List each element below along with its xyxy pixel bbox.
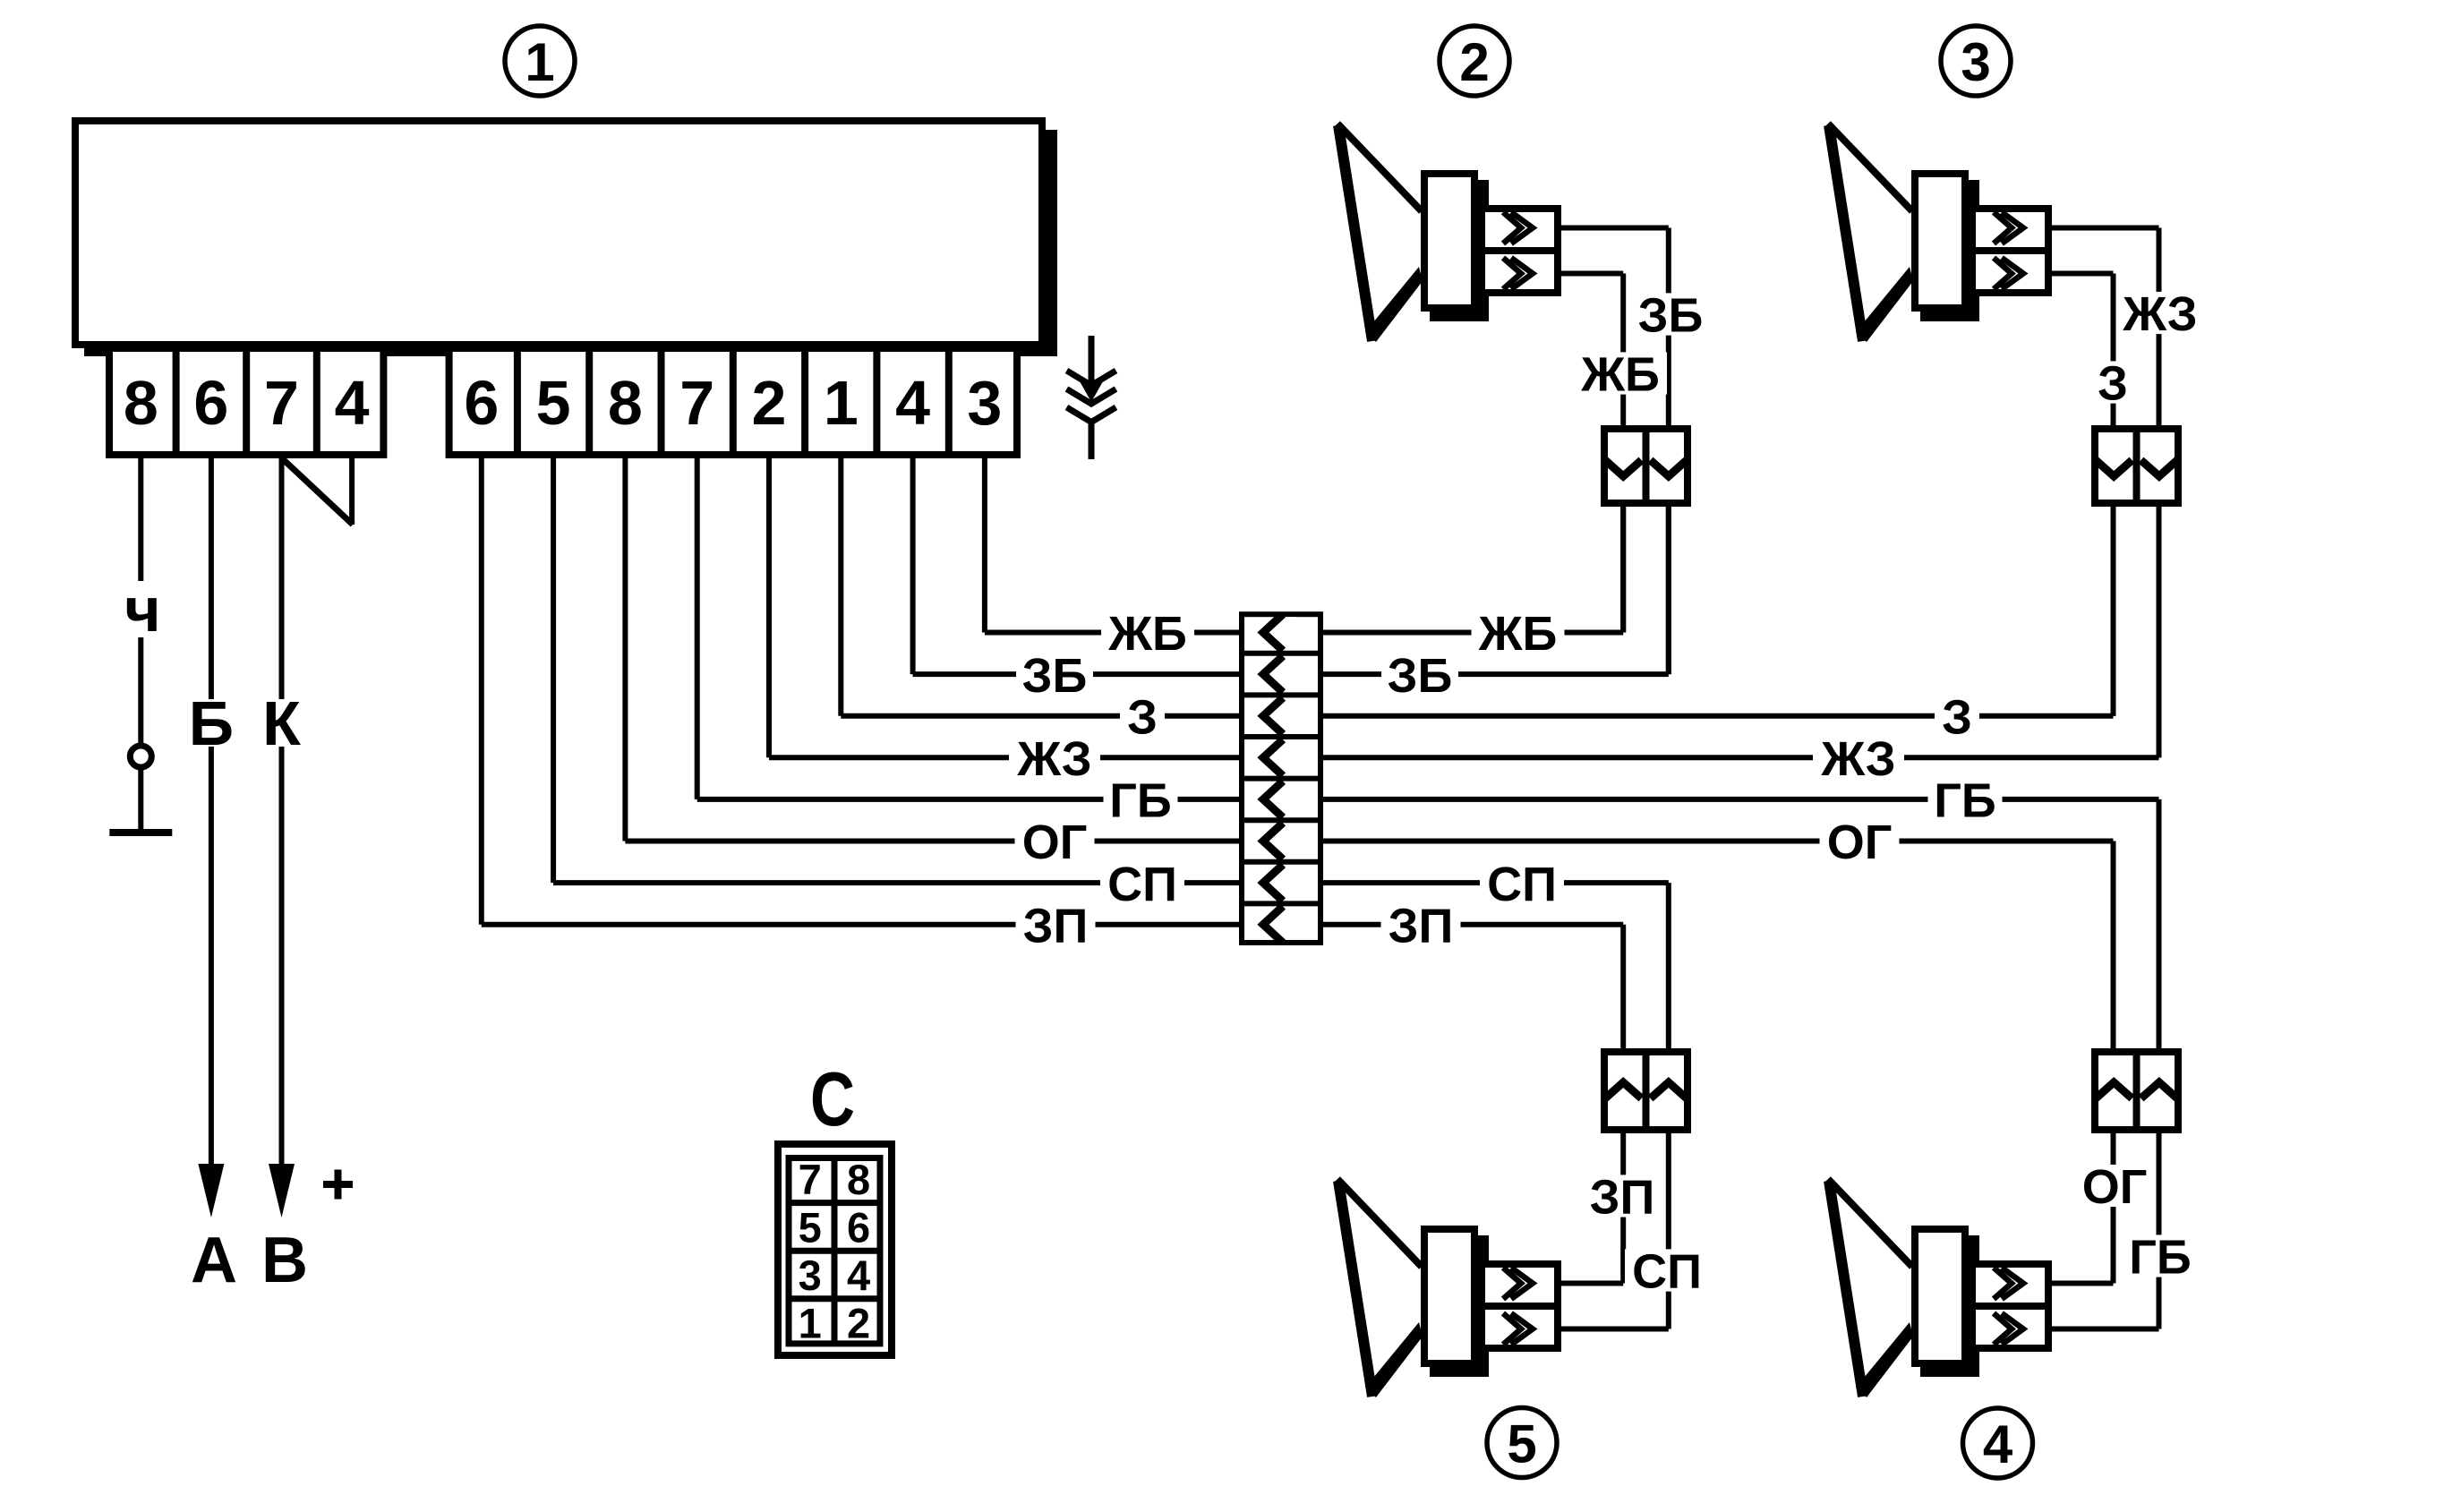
X1 contact 4 chevron (1263, 739, 1297, 776)
svg-text:3: 3 (799, 1251, 822, 1299)
wire СП from X1 to connector (right) (1323, 883, 1669, 1048)
svg-text:1: 1 (799, 1300, 822, 1347)
wire label ГБ (right) (1928, 778, 2003, 820)
connector block A: pins 8 6 7 4 (109, 348, 383, 455)
svg-text:ЗП: ЗП (1023, 899, 1089, 952)
svg-text:7: 7 (264, 368, 299, 438)
speaker 2 circled designator (1440, 26, 1509, 96)
svg-text:СП: СП (1107, 858, 1177, 911)
wire speaker 2 top terminal to ЗБ (1561, 228, 1669, 426)
svg-text:5: 5 (799, 1203, 822, 1251)
svg-text:ЗП: ЗП (1389, 899, 1454, 952)
svg-text:З: З (1942, 690, 1972, 744)
wire label З (speaker 3) (2090, 361, 2135, 403)
wire ЗП from pin to X1 (left) (482, 458, 1239, 925)
wire label ЗБ (right) (1381, 653, 1458, 696)
svg-text:8: 8 (608, 368, 643, 438)
wire label ОГ (left) (1015, 820, 1095, 862)
svg-text:З: З (2098, 357, 2128, 411)
wire c5 to speaker 5 bottom terminal (СП) (1561, 1133, 1669, 1329)
wire label З (right) (1935, 695, 1979, 737)
speaker 5 circled designator (1487, 1408, 1557, 1478)
wire label ЗП (speaker 5) (1583, 1175, 1662, 1217)
X1 contact 5 chevron (1263, 782, 1297, 818)
X1 contact 8 chevron (1263, 906, 1297, 943)
svg-text:ЗБ: ЗБ (1022, 649, 1088, 703)
wire speaker 2 bottom terminal to ЖБ (1561, 274, 1623, 426)
inline connector for speaker 4 (2095, 1048, 2178, 1133)
svg-text:ЖБ: ЖБ (1478, 607, 1558, 661)
wire label З (left) (1120, 695, 1165, 737)
svg-text:ЗП: ЗП (1590, 1171, 1655, 1225)
wire ГБ from X1 to connector (right) (1323, 799, 2159, 1048)
wire ЖЗ from X1 to connector (right) (1323, 507, 2159, 757)
svg-text:ОГ: ОГ (1827, 816, 1893, 869)
wire label СП (left) (1100, 862, 1184, 904)
wire З from X1 to connector (right) (1323, 507, 2114, 716)
svg-text:ЖБ: ЖБ (1580, 348, 1660, 402)
svg-text:ЖЗ: ЖЗ (1820, 732, 1895, 786)
wire from pin 6 (Б) to A (209, 458, 214, 1166)
wire label ЖЗ (left) (1009, 737, 1100, 779)
wire ОГ from pin to X1 (left) (625, 458, 1239, 841)
svg-text:А: А (191, 1225, 237, 1296)
wire speaker 3 bottom terminal to З (2052, 274, 2114, 426)
wire c4 to speaker 4 top terminal (ОГ) (2052, 1133, 2114, 1284)
wire ЖБ from pin to X1 (left) (985, 458, 1239, 633)
wire ГБ from pin to X1 (left) (697, 458, 1239, 799)
svg-text:З: З (1127, 690, 1158, 744)
svg-text:В: В (261, 1225, 308, 1296)
X1 contact 7 chevron (1263, 865, 1297, 901)
svg-text:СП: СП (1632, 1245, 1702, 1299)
wire label СП (right) (1480, 862, 1564, 904)
svg-text:6: 6 (193, 368, 228, 438)
wire З from pin to X1 (left) (841, 458, 1239, 716)
inline connector for speaker 2 (1604, 425, 1688, 507)
svg-text:ЖЗ: ЖЗ (2122, 287, 2197, 341)
svg-text:6: 6 (847, 1203, 870, 1251)
connector X1: 8-way strip (1239, 614, 1323, 943)
wire label ГБ (left) (1104, 778, 1178, 820)
speaker 2 (1337, 124, 1561, 343)
svg-text:4: 4 (895, 368, 930, 438)
arrow to node A (198, 1164, 224, 1217)
wire c5 to speaker 5 top terminal (ЗП) (1561, 1133, 1623, 1284)
junction circle on ground lead (130, 746, 151, 767)
speaker 3 (1828, 124, 2052, 343)
arrow to node B (269, 1164, 295, 1217)
svg-text:1: 1 (525, 32, 554, 92)
speaker 4 (1828, 1179, 2052, 1398)
wire label ЗБ (speaker 2) (1632, 293, 1709, 335)
inline connector for speaker 5 (1604, 1048, 1688, 1133)
ground symbol (109, 829, 172, 836)
svg-text:7: 7 (799, 1156, 822, 1203)
wire label ЖБ (right) (1472, 611, 1565, 653)
svg-text:1: 1 (824, 368, 859, 438)
wire ЗП from X1 to connector (right) (1323, 925, 1623, 1048)
antenna switch lever from pin 7 (282, 458, 353, 525)
svg-text:ГБ: ГБ (1109, 774, 1171, 828)
plus sign at node B (323, 1170, 353, 1200)
svg-text:ЖБ: ЖБ (1107, 607, 1187, 661)
svg-text:ГБ: ГБ (1934, 774, 1995, 828)
X1 contact 3 chevron (1263, 697, 1297, 734)
antenna switch: pin 4 stub (349, 458, 355, 525)
wire c3 to rows (2111, 507, 2116, 716)
svg-text:ОГ: ОГ (2082, 1160, 2148, 1214)
wire label ЖБ (speaker 2) (1574, 352, 1667, 394)
wire ЖБ from X1 to connector (right) (1323, 507, 1623, 633)
svg-text:ч: ч (124, 575, 161, 645)
X1 contact 1 chevron (1263, 614, 1297, 651)
svg-text:3: 3 (967, 368, 1002, 438)
svg-text:4: 4 (847, 1251, 870, 1299)
wire ЖЗ from pin to X1 (left) (769, 458, 1239, 757)
svg-text:4: 4 (335, 368, 370, 438)
wire from pin 7 (К) to B (279, 458, 285, 1166)
wire label ЗП (right) (1381, 903, 1461, 945)
antenna symbol (1067, 336, 1116, 459)
svg-text:ОГ: ОГ (1022, 816, 1088, 869)
speaker 5 (1337, 1179, 1561, 1398)
inline connector for speaker 3 (2095, 425, 2178, 507)
wire ЗБ from pin to X1 (left) (913, 458, 1239, 674)
svg-text:8: 8 (124, 368, 158, 438)
svg-text:ЖЗ: ЖЗ (1016, 732, 1091, 786)
svg-text:ЗБ: ЗБ (1638, 289, 1704, 343)
wire label ЗБ (left) (1016, 653, 1093, 696)
wire ЗБ from X1 to connector (right) (1323, 507, 1669, 674)
wire ОГ from X1 to connector (right) (1323, 841, 2114, 1049)
wire c23 to rows (1620, 507, 1626, 633)
svg-text:5: 5 (1507, 1414, 1536, 1474)
wire СП from pin to X1 (left) (553, 458, 1239, 883)
X1 contact 2 chevron (1263, 656, 1297, 693)
wire label ЗП (left) (1016, 903, 1096, 945)
wire label ОГ (speaker 4) (2075, 1165, 2155, 1207)
svg-text:К: К (262, 688, 301, 758)
speaker 3 circled designator (1941, 26, 2011, 96)
svg-text:СП: СП (1487, 858, 1557, 911)
head unit 1: circled designator (505, 26, 575, 96)
head unit 1: radio body box with drop shadow (75, 121, 1057, 356)
svg-text:Б: Б (189, 688, 234, 758)
wire speaker 3 top terminal to ЖЗ (2052, 228, 2159, 426)
svg-text:ЗБ: ЗБ (1388, 649, 1453, 703)
svg-text:8: 8 (847, 1156, 870, 1203)
svg-text:4: 4 (1983, 1414, 2013, 1474)
svg-text:5: 5 (536, 368, 571, 438)
svg-text:2: 2 (752, 368, 787, 438)
svg-text:7: 7 (679, 368, 714, 438)
connector C pinout table (778, 1144, 892, 1355)
wire from pin 8 (black) (138, 458, 143, 746)
svg-text:3: 3 (1961, 32, 1990, 92)
wire label ОГ (right) (1820, 820, 1900, 862)
wire label СП (speaker 5) (1625, 1249, 1709, 1291)
wire label ЖЗ (right) (1813, 737, 1904, 779)
wire label ЖБ (left) (1101, 611, 1194, 653)
svg-text:2: 2 (1459, 32, 1489, 92)
wire below junction (138, 767, 143, 833)
speaker 4 circled designator (1963, 1408, 2033, 1478)
wire label ЖЗ (speaker 3) (2115, 292, 2206, 334)
connector block B: pins 6 5 8 7 2 1 4 3 (449, 348, 1017, 455)
X1 contact 6 chevron (1263, 823, 1297, 859)
wire label ГБ (speaker 4) (2123, 1234, 2198, 1277)
wire c4 to speaker 4 bottom terminal (ГБ) (2052, 1133, 2159, 1329)
svg-text:6: 6 (464, 368, 499, 438)
svg-text:2: 2 (847, 1300, 870, 1347)
svg-text:С: С (810, 1057, 855, 1142)
svg-text:ГБ: ГБ (2129, 1231, 2191, 1285)
